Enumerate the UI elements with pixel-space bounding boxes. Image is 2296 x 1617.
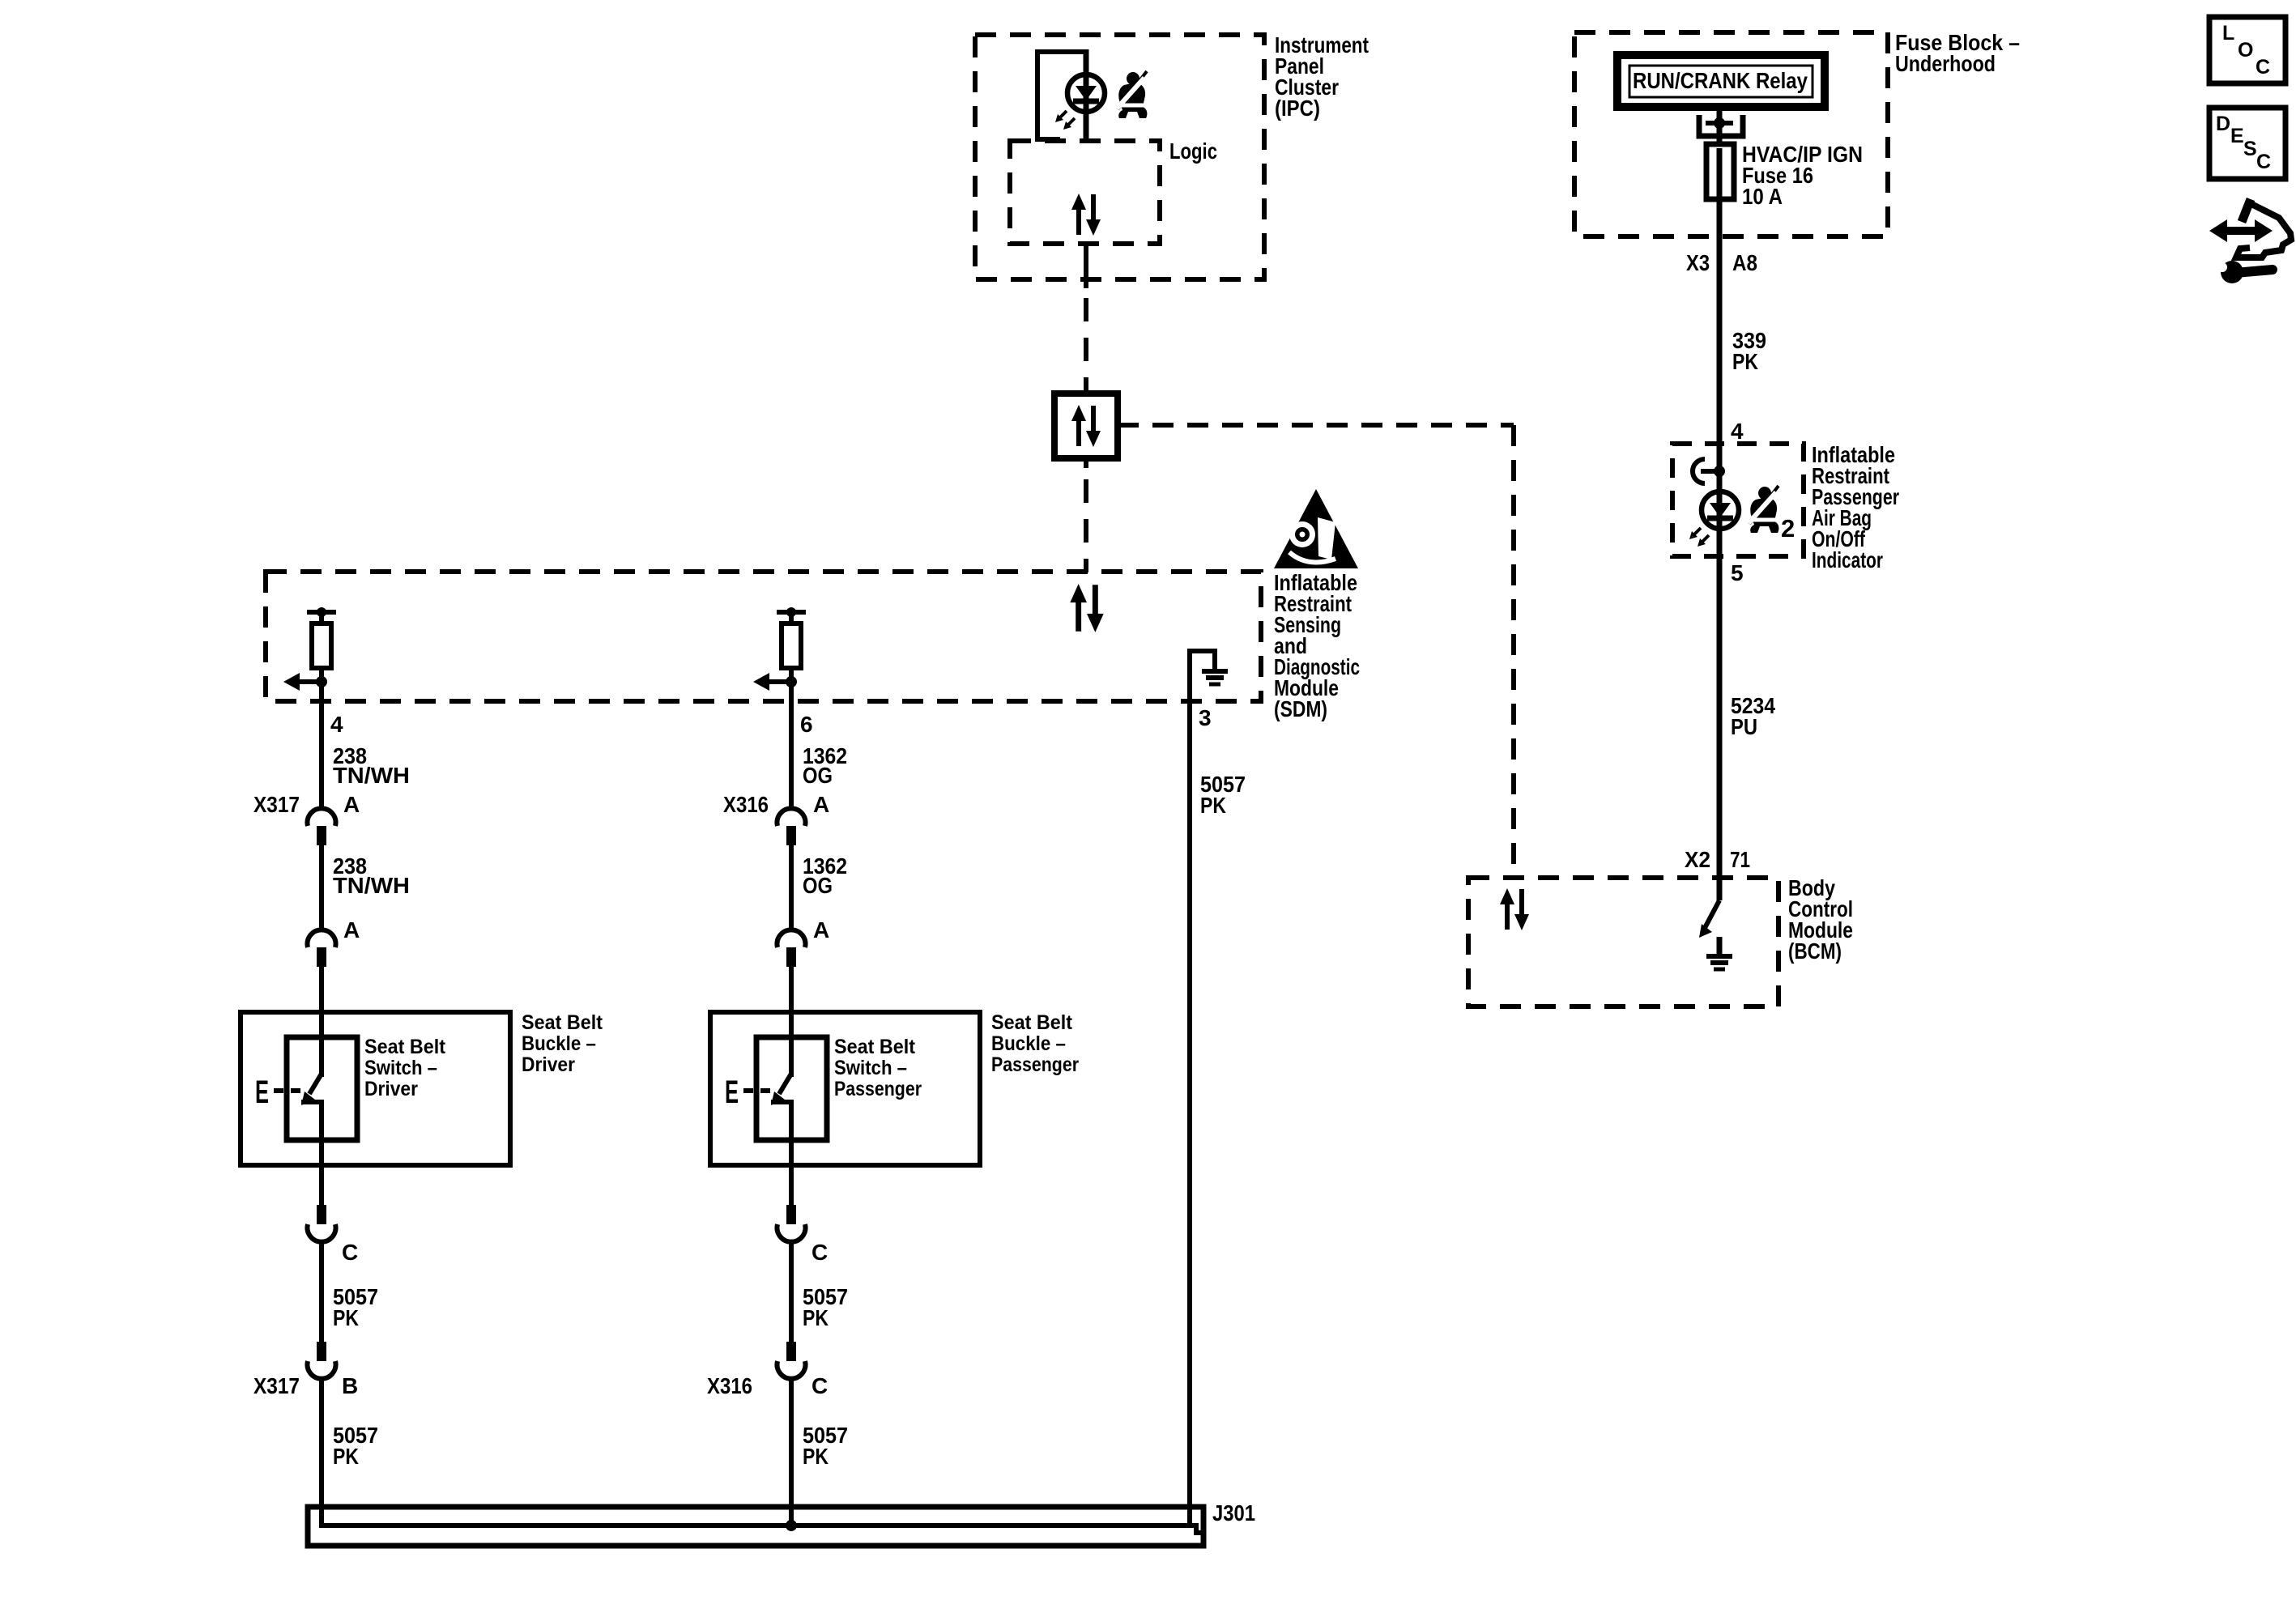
wire passenger to J301 [789, 1380, 794, 1526]
Instrument Panel Cluster (IPC) dashed box [975, 35, 1264, 279]
indicator driver element [1693, 459, 1725, 483]
LOC legend box [2209, 17, 2285, 83]
RUN/CRANK Relay [1617, 55, 1825, 107]
service icon wrench [2217, 261, 2273, 283]
wire logic to IPC edge [1084, 244, 1088, 288]
Seat Belt Buckle Driver label [522, 1011, 603, 1076]
wire 5057 PK driver [319, 1243, 324, 1342]
BCM label [1788, 875, 1853, 964]
svg-text:Indicator: Indicator [1812, 547, 1883, 572]
connector X316 C [707, 1342, 828, 1398]
svg-text:X3: X3 [1686, 250, 1710, 275]
BCM serial data arrows [1500, 888, 1529, 930]
indicator LED [1689, 491, 1739, 547]
Seat Belt Switch Driver box [287, 1037, 357, 1140]
svg-text:4: 4 [1731, 419, 1744, 444]
svg-text:X317: X317 [253, 792, 300, 817]
connector X3 A8 [1686, 250, 1757, 275]
Inflatable Restraint Passenger Air Bag On/Off Indicator dashed box [1672, 444, 1804, 556]
Fuse Block label [1895, 30, 2020, 76]
wire 5057 PK passenger [789, 1243, 794, 1342]
connector A passenger 2 [777, 917, 830, 967]
svg-text:PK: PK [803, 1305, 829, 1330]
svg-text:A: A [343, 917, 360, 943]
svg-text:(SDM): (SDM) [1274, 696, 1327, 721]
wire 1362 OG label [803, 743, 847, 788]
wire into driver buckle [319, 967, 324, 1077]
Body Control Module (BCM) dashed box [1468, 878, 1778, 1006]
svg-text:Passenger: Passenger [991, 1053, 1079, 1076]
svg-text:3: 3 [1199, 705, 1212, 730]
svg-text:4: 4 [330, 712, 343, 737]
connector X317 A [253, 792, 360, 845]
svg-text:OG: OG [803, 763, 833, 788]
Seat Belt Switch Passenger label [834, 1036, 922, 1100]
connector C passenger lower [777, 1205, 829, 1265]
svg-text:E: E [725, 1074, 739, 1110]
svg-text:OG: OG [803, 873, 833, 898]
passenger switch contact [771, 1102, 791, 1165]
svg-text:X316: X316 [707, 1373, 752, 1398]
SDM passenger resistor [782, 623, 801, 668]
wire 238 TN/WH label [333, 743, 410, 788]
Seat Belt Switch Driver label [364, 1036, 446, 1100]
dashed serial wire below data link box [1084, 458, 1088, 572]
svg-text:B: B [342, 1373, 358, 1398]
SDM driver sense arrow [283, 673, 327, 691]
seat belt icon (IPC) [1117, 71, 1147, 118]
svg-text:X316: X316 [723, 792, 769, 817]
Seat Belt Buckle Driver box [241, 1012, 510, 1165]
svg-text:O: O [2238, 39, 2253, 62]
seat belt indicator lamp housing (IPC) [1037, 52, 1087, 139]
HVAC/IP IGN Fuse 16 [1706, 142, 1863, 209]
SDM driver squib supply T [307, 607, 336, 623]
svg-text:TN/WH: TN/WH [333, 763, 410, 788]
svg-text:L: L [2222, 22, 2234, 45]
wire 1362 segment 2 [789, 845, 794, 929]
airbag warning triangle [1274, 489, 1358, 568]
dashed serial wire to BCM vertical [1511, 425, 1516, 878]
svg-text:Switch –: Switch – [834, 1057, 907, 1079]
wire driver SDM to connector [319, 668, 324, 807]
svg-text:RUN/CRANK Relay: RUN/CRANK Relay [1633, 68, 1808, 93]
svg-text:C: C [811, 1373, 828, 1398]
Fuse Block - Underhood dashed box [1574, 32, 1888, 236]
svg-text:Buckle –: Buckle – [991, 1032, 1066, 1055]
svg-text:PK: PK [333, 1305, 359, 1330]
driver switch contact [301, 1102, 322, 1165]
LED indicator (IPC) [1055, 74, 1105, 130]
svg-text:Logic: Logic [1169, 138, 1217, 164]
svg-text:A: A [813, 917, 829, 943]
svg-text:5: 5 [1731, 560, 1744, 585]
SDM serial arrows [1070, 584, 1103, 632]
pin 4 SDM [330, 712, 343, 737]
wire through indicator box [1717, 444, 1723, 900]
wire 5057 PK label passenger 2 [803, 1423, 848, 1469]
svg-text:J301: J301 [1212, 1500, 1255, 1526]
connector X2 71 [1685, 847, 1750, 872]
svg-text:C: C [811, 1240, 828, 1265]
junction passenger at J301 [786, 1520, 797, 1531]
SDM passenger sense arrow [753, 673, 797, 691]
svg-text:A: A [813, 792, 829, 817]
svg-text:E: E [2230, 125, 2244, 147]
SDM driver resistor [312, 623, 331, 668]
connector C driver lower [308, 1205, 359, 1265]
driver switch blade [301, 1074, 322, 1105]
wire 5057 PK label passenger [803, 1284, 848, 1330]
svg-text:PK: PK [1200, 793, 1226, 818]
wire driver to J301 [322, 1380, 1190, 1526]
E actuator passenger [725, 1074, 774, 1110]
wire 5234 PU label [1731, 693, 1775, 739]
connector X317 B [253, 1342, 358, 1398]
svg-text:Driver: Driver [364, 1078, 418, 1100]
BCM switch blade [1699, 900, 1719, 938]
svg-text:(BCM): (BCM) [1788, 938, 1842, 964]
Seat Belt Buckle Passenger box [710, 1012, 980, 1165]
connector A driver 2 [308, 917, 360, 967]
wire passenger SDM to connector [789, 668, 794, 807]
svg-text:E: E [255, 1074, 269, 1110]
svg-text:PK: PK [1732, 349, 1758, 374]
svg-text:A8: A8 [1732, 250, 1757, 275]
svg-text:C: C [342, 1240, 358, 1265]
J301 ground bus [308, 1507, 1203, 1546]
svg-text:Passenger: Passenger [834, 1078, 922, 1100]
pin 5 indicator [1731, 560, 1744, 585]
SDM label [1274, 570, 1360, 721]
svg-text:Underhood: Underhood [1895, 51, 1996, 76]
svg-text:Switch –: Switch – [364, 1057, 437, 1079]
svg-text:PK: PK [803, 1444, 829, 1469]
logic block arrows [1071, 194, 1101, 236]
wire LED vertical (IPC) [1084, 49, 1089, 141]
wire fuse to indicator box [1717, 148, 1723, 444]
serial data dashed wire IPC to data link box [1084, 298, 1088, 394]
wire 238 TN/WH label 2 [333, 853, 410, 898]
pin 4 indicator [1731, 419, 1744, 444]
wire 339 PK label [1732, 328, 1766, 374]
IPC label [1275, 32, 1369, 121]
svg-text:C: C [2256, 151, 2271, 173]
svg-text:D: D [2216, 113, 2230, 135]
BCM ground [1706, 937, 1732, 969]
wire 5057 PK label driver 2 [333, 1423, 378, 1469]
svg-text:Seat Belt: Seat Belt [522, 1011, 603, 1034]
connector X316 A [723, 792, 829, 845]
Logic dashed box [1010, 141, 1160, 244]
seat belt icon 2 [1749, 486, 1795, 543]
wire 5057 PK label driver [333, 1284, 378, 1330]
svg-text:Seat Belt: Seat Belt [834, 1036, 916, 1058]
svg-text:10 A: 10 A [1742, 184, 1783, 209]
wire 5057 PK label SDM [1200, 772, 1246, 818]
svg-text:Driver: Driver [522, 1053, 575, 1076]
indicator box label [1812, 442, 1899, 572]
pin 6 SDM [800, 712, 813, 737]
SDM passenger squib supply T [777, 607, 806, 623]
DESC legend box [2209, 108, 2285, 179]
svg-text:S: S [2243, 138, 2257, 160]
wire relay to fuse [1717, 107, 1723, 144]
dashed serial wire to BCM horizontal [1118, 423, 1514, 428]
svg-text:TN/WH: TN/WH [333, 873, 410, 898]
serial data link box [1054, 394, 1118, 458]
svg-text:(IPC): (IPC) [1275, 96, 1320, 121]
svg-text:Seat Belt: Seat Belt [991, 1011, 1073, 1034]
relay output clip [1699, 115, 1743, 136]
svg-text:PK: PK [333, 1444, 359, 1469]
wire SDM ground to J301 [1190, 701, 1203, 1533]
Logic label [1169, 138, 1217, 164]
wire into passenger buckle [789, 967, 794, 1077]
passenger switch blade [771, 1074, 791, 1105]
pin 3 SDM [1199, 705, 1212, 730]
svg-text:Buckle –: Buckle – [522, 1032, 596, 1055]
svg-text:2: 2 [1781, 514, 1795, 543]
wire 1362 OG label 2 [803, 853, 847, 898]
svg-text:X317: X317 [253, 1373, 300, 1398]
svg-text:Seat Belt: Seat Belt [364, 1036, 446, 1058]
svg-text:A: A [343, 792, 360, 817]
SDM internal ground [1190, 651, 1228, 701]
svg-text:C: C [2256, 56, 2270, 79]
wire passenger buckle down [789, 1165, 794, 1205]
wire 238 segment 2 [319, 845, 324, 929]
Seat Belt Buckle Passenger label [991, 1011, 1079, 1076]
svg-text:PU: PU [1731, 714, 1757, 739]
wire driver buckle down [319, 1165, 324, 1205]
svg-text:71: 71 [1730, 847, 1750, 872]
serial data link arrows [1071, 405, 1101, 447]
service icon hand with arrow [2209, 199, 2291, 257]
Seat Belt Switch Passenger box [756, 1037, 827, 1140]
J301 label [1212, 1500, 1255, 1526]
E actuator driver [255, 1074, 305, 1110]
Inflatable Restraint Sensing and Diagnostic Module (SDM) dashed box [266, 572, 1261, 701]
svg-text:X2: X2 [1685, 847, 1710, 872]
svg-text:6: 6 [800, 712, 813, 737]
